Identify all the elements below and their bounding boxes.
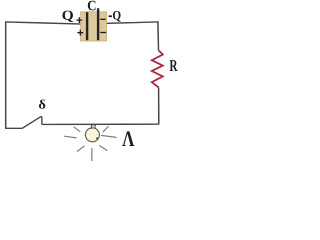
label C (88, 1, 96, 11)
lamp ray right (101, 135, 116, 137)
label -Q (109, 11, 121, 22)
lamp bulb neck lines (92, 124, 96, 129)
wire top right segment (99, 22, 158, 24)
lamp ray upper-right (103, 126, 109, 132)
wire right vertical upper (157, 21, 160, 50)
wire left vertical (5, 22, 7, 128)
lamp bulb globe (85, 128, 99, 142)
minus sign upper (100, 18, 106, 20)
label Q (62, 11, 73, 22)
resistor R zigzag (152, 50, 163, 87)
capacitor left plate (86, 12, 88, 40)
capacitor right plate (97, 8, 99, 40)
lamp neck cap flare (91, 124, 97, 126)
switch contact post (41, 116, 43, 124)
capacitor C dielectric box (81, 12, 107, 41)
wire bottom right segment (42, 123, 159, 125)
plus sign upper (76, 17, 82, 23)
minus sign lower (100, 32, 106, 34)
label delta (39, 100, 45, 109)
label R (170, 60, 178, 71)
label Lambda (122, 131, 134, 146)
lamp ray left (64, 136, 76, 138)
wire right vertical lower (158, 87, 160, 124)
lamp bulb neck fill (92, 125, 95, 130)
lamp ray down (91, 148, 93, 161)
plus sign lower (77, 30, 83, 36)
lamp ray lower-right (99, 145, 107, 150)
lamp filament dot (96, 137, 98, 139)
lamp ray upper-left (74, 127, 81, 132)
switch S (open lever) (22, 116, 42, 128)
wire bottom left segment (5, 127, 22, 129)
lamp ray lower-left (77, 146, 85, 152)
wire top left segment (5, 22, 87, 24)
